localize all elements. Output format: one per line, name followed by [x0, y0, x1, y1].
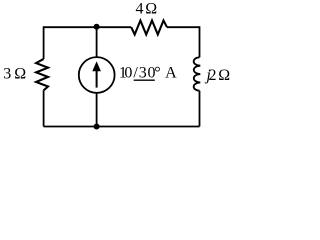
- wire top-left segment: [44, 26, 132, 28]
- wire source top stub: [96, 27, 98, 58]
- svg-text:10/30°A: 10/30°A: [119, 64, 177, 81]
- inductor L j2ohm coil: [194, 57, 201, 90]
- svg-text:3Ω: 3Ω: [3, 66, 26, 83]
- wire right top stub: [199, 26, 201, 57]
- resistor R 4ohm zigzag: [131, 21, 167, 35]
- node dot bottom junction: [94, 124, 100, 130]
- wire left top stub: [43, 26, 45, 59]
- current source arrow shaft: [96, 70, 98, 88]
- label underline under 30: [134, 79, 155, 81]
- wire top-right segment: [167, 26, 200, 28]
- current source arrowhead: [92, 61, 101, 71]
- current source I1 circle: [79, 57, 115, 93]
- wire right bottom stub: [199, 91, 201, 127]
- wire left bottom stub: [43, 90, 45, 126]
- wire bottom: [44, 126, 200, 128]
- svg-text:j2Ω: j2Ω: [204, 67, 230, 84]
- wire source bottom stub: [96, 92, 98, 127]
- resistor R 3ohm zigzag: [36, 59, 48, 91]
- svg-text:4Ω: 4Ω: [136, 1, 158, 18]
- node dot top junction: [94, 24, 100, 30]
